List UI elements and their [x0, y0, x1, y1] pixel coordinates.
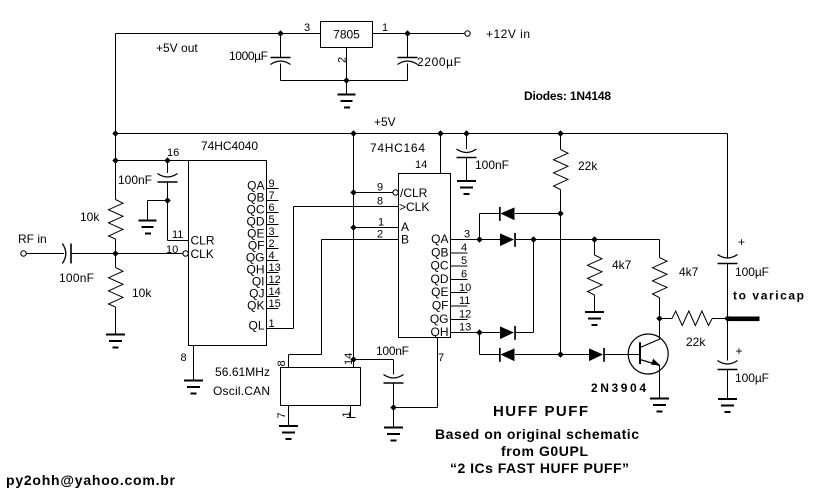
svg-text:QH: QH: [431, 325, 449, 339]
ground R4: [585, 312, 604, 325]
svg-text:B: B: [401, 233, 409, 247]
resistor R6 22k horizontal: [660, 318, 728, 320]
svg-text:12: 12: [459, 309, 471, 321]
svg-text:22k: 22k: [686, 335, 706, 349]
svg-text:9: 9: [269, 178, 275, 190]
svg-text:3: 3: [464, 229, 470, 241]
resistor R3 22k top: [560, 134, 562, 214]
svg-text:6: 6: [269, 202, 275, 214]
regulator U1 7805: [321, 22, 373, 48]
svg-text:4: 4: [269, 250, 275, 262]
wire pin16 supply row: [116, 160, 189, 162]
terminal RF in: [21, 251, 26, 256]
svg-text:Based on original schematic: Based on original schematic: [435, 426, 639, 442]
transistor emitter arrow: [651, 359, 660, 366]
wire left vertical rail: [115, 34, 117, 200]
svg-text:2: 2: [377, 229, 383, 241]
svg-text:14: 14: [269, 286, 281, 298]
diode D1: [501, 207, 515, 220]
junction node dots: [277, 30, 283, 36]
svg-text:10: 10: [166, 244, 178, 256]
svg-text:13: 13: [269, 262, 281, 274]
wire +5V bus right drop: [727, 134, 729, 257]
svg-text:13: 13: [459, 322, 471, 334]
wire QL pin1 to 74HC164 CLK: [267, 207, 399, 329]
svg-text:QG: QG: [430, 312, 449, 326]
capacitor C7 100uF plates: [718, 255, 738, 259]
ground Q1 emitter: [650, 399, 669, 412]
svg-text:QC: QC: [431, 259, 449, 273]
svg-text:8: 8: [276, 360, 288, 366]
wire CLR pin11: [168, 240, 189, 242]
wire pinA: [354, 227, 399, 229]
wire 4040 pin8 ground stem: [193, 346, 195, 381]
wire pinB from oscillator output pin8: [289, 240, 399, 368]
svg-text:2200µF: 2200µF: [417, 55, 461, 69]
svg-text:22k: 22k: [578, 159, 598, 173]
wire QH row through diode D3: [480, 332, 534, 334]
svg-text:7: 7: [438, 352, 444, 364]
capacitor C3 100nF plates: [158, 174, 178, 178]
svg-text:15: 15: [269, 298, 281, 310]
ground R2: [106, 335, 125, 348]
wire 74HC164 pin14 supply: [440, 134, 442, 174]
svg-text:1000µF: 1000µF: [229, 49, 268, 63]
svg-text:5: 5: [269, 214, 275, 226]
ground C6 node: [393, 408, 395, 428]
svg-text:py2ohh@yahoo.com.br: py2ohh@yahoo.com.br: [6, 472, 176, 488]
svg-text:4k7: 4k7: [679, 265, 699, 279]
wire oscillator pin14 branch to C6: [354, 360, 394, 375]
wire +5V bus: [116, 133, 728, 135]
wire C7 to varicap node: [727, 264, 729, 319]
transistor Q1 2N3904: [628, 334, 668, 374]
svg-text:CLK: CLK: [191, 247, 214, 261]
svg-text:4k7: 4k7: [612, 258, 632, 272]
wire node to ground arm: [148, 201, 168, 221]
wire 74HC164 pin7 to ground node: [394, 338, 438, 408]
svg-text:CLR: CLR: [191, 234, 215, 248]
svg-text:100nF: 100nF: [475, 158, 509, 172]
svg-text:4: 4: [461, 242, 467, 254]
wire RF in to C4: [27, 253, 65, 255]
wire D2 D3 cathode vertical: [533, 240, 535, 333]
varicap thick output bar: [729, 317, 760, 322]
svg-text:7: 7: [269, 190, 275, 202]
svg-text:QK: QK: [247, 299, 264, 313]
resistor R1 10k upper: [115, 161, 117, 254]
svg-text:14: 14: [415, 159, 427, 171]
wire bottom diode row to transistor base: [480, 333, 641, 355]
svg-text:11: 11: [172, 229, 183, 241]
wire emitter to ground: [659, 366, 661, 399]
diode D2: [500, 233, 514, 246]
svg-text:Oscil.CAN: Oscil.CAN: [213, 384, 270, 398]
wire 7805 output to +12V terminal: [372, 33, 465, 35]
wire oscillator pin7 ground: [288, 406, 290, 426]
svg-text:100µF: 100µF: [735, 371, 769, 385]
capacitor C7 100uF upper stem: [727, 256, 729, 259]
svg-text:8: 8: [181, 352, 187, 364]
ground C3: [139, 221, 157, 234]
bubble 74HC164 /CLR pin9: [393, 190, 398, 195]
svg-text:/CLR: /CLR: [400, 186, 428, 200]
svg-text:>CLK: >CLK: [399, 200, 429, 214]
wire C3 bottom to CLR node: [167, 183, 169, 241]
svg-text:+12V in: +12V in: [486, 27, 530, 41]
capacitor C5 100nF plates: [457, 149, 477, 153]
svg-text:9: 9: [377, 182, 383, 194]
svg-text:“2 ICs FAST HUFF PUFF”: “2 ICs FAST HUFF PUFF”: [450, 460, 629, 476]
svg-text:6: 6: [461, 269, 467, 281]
diode D4: [501, 348, 515, 361]
svg-text:10k: 10k: [80, 210, 100, 224]
svg-text:100µF: 100µF: [735, 265, 769, 279]
svg-text:7805: 7805: [333, 28, 360, 42]
svg-text:+: +: [736, 344, 743, 358]
svg-text:3: 3: [269, 226, 275, 238]
IC U2 74HC4040 body: [189, 161, 267, 346]
svg-text:1: 1: [378, 217, 384, 229]
oscillator X1 body: [281, 368, 361, 406]
svg-text:+: +: [738, 235, 745, 249]
svg-text:1: 1: [382, 22, 388, 34]
wire collector to node: [659, 319, 661, 340]
ground 4040 pin8: [184, 381, 203, 394]
wire C4 to CLK node: [72, 253, 183, 255]
svg-text:HUFF PUFF: HUFF PUFF: [493, 403, 588, 420]
svg-text:7: 7: [276, 412, 288, 418]
svg-text:100nF: 100nF: [59, 271, 94, 285]
svg-text:8: 8: [377, 196, 383, 208]
resistor R4 4k7 left: [594, 240, 596, 312]
capacitor C1 1000uF stems: [280, 34, 282, 81]
svg-text:Diodes: 1N4148: Diodes: 1N4148: [524, 89, 611, 103]
wire C6 bottom: [393, 384, 395, 408]
capacitor C8 100uF lower plates: [718, 361, 738, 365]
svg-text:12: 12: [269, 274, 281, 286]
svg-text:56.61MHz: 56.61MHz: [215, 365, 270, 379]
svg-text:QL: QL: [248, 319, 264, 333]
svg-text:QA: QA: [431, 232, 448, 246]
wire 22k junction vertical: [560, 214, 562, 355]
svg-text:100nF: 100nF: [376, 344, 409, 358]
svg-text:16: 16: [167, 147, 179, 159]
wire oscillator pin1 stub: [347, 406, 356, 418]
wire C8 to ground: [727, 370, 729, 399]
ground C5: [466, 158, 468, 181]
svg-text:5: 5: [461, 255, 467, 267]
wire varicap node to C8: [727, 319, 729, 361]
wire pin9 /CLR: [354, 192, 393, 194]
svg-text:from G0UPL: from G0UPL: [501, 443, 588, 459]
svg-text:74HC4040: 74HC4040: [201, 139, 258, 153]
svg-text:74HC164: 74HC164: [370, 141, 425, 155]
wire 7805 pin2 down: [346, 47, 348, 81]
ground regulator: [346, 81, 348, 95]
wire QA pin3: [451, 239, 480, 241]
wire +5V vertical feed to pin9 pinA and oscillator pin14: [353, 134, 355, 368]
svg-text:2: 2: [337, 57, 349, 63]
svg-text:+5V: +5V: [374, 115, 396, 129]
svg-text:1: 1: [269, 318, 275, 330]
svg-text:QE: QE: [431, 285, 448, 299]
svg-text:100nF: 100nF: [118, 173, 152, 187]
svg-text:QB: QB: [431, 246, 448, 260]
capacitor C2 2200uF stems: [407, 34, 409, 81]
svg-text:QD: QD: [431, 272, 449, 286]
capacitor C2 2200uF plates: [398, 57, 418, 59]
capacitor C4 100nF plates: [62, 244, 66, 264]
diode D3: [500, 326, 514, 339]
svg-text:11: 11: [459, 295, 470, 307]
resistor R5 4k7 right: [659, 240, 661, 319]
IC U3 74HC164 body: [399, 174, 451, 338]
diode D5: [589, 348, 603, 361]
svg-text:+5V out: +5V out: [156, 41, 198, 55]
svg-text:3: 3: [304, 22, 310, 34]
wire ground bus under regulator: [281, 80, 408, 82]
capacitor C5 100nF stem: [466, 134, 468, 150]
bubble CLK pin10: [183, 251, 188, 256]
svg-text:10k: 10k: [132, 286, 152, 300]
capacitor C1 1000uF plates: [271, 57, 291, 59]
svg-text:14: 14: [343, 353, 355, 365]
ground C8: [718, 399, 737, 412]
svg-text:QF: QF: [432, 299, 449, 313]
ground oscillator pin7: [279, 426, 298, 439]
svg-text:10: 10: [459, 282, 471, 294]
capacitor C6 100nF plates: [384, 375, 404, 379]
svg-text:RF in: RF in: [18, 232, 47, 246]
wire QH pin13: [451, 332, 480, 334]
terminal +12V in: [465, 31, 470, 36]
wire diode row1: [480, 214, 561, 240]
74HC164 output pin stubs: [451, 253, 468, 320]
resistor R2 10k lower: [115, 254, 117, 335]
4040 output pin stubs: [267, 189, 279, 309]
svg-text:1: 1: [341, 411, 353, 417]
wire QA row through diode D2 to 4k7 resistors: [480, 239, 660, 241]
svg-text:to varicap: to varicap: [733, 289, 804, 303]
capacitor C3 100nF stem: [167, 161, 169, 174]
wire +5V out top rail from regulator input: [116, 33, 321, 35]
svg-text:2: 2: [269, 238, 275, 250]
